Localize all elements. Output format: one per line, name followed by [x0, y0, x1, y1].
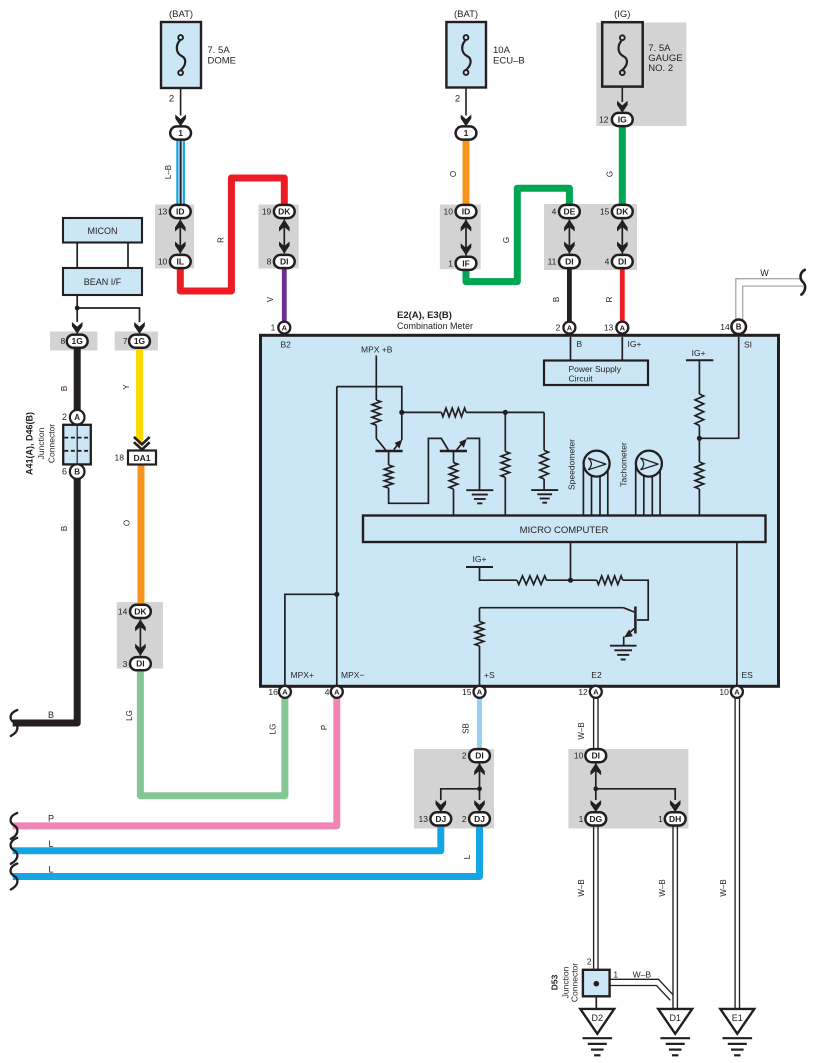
svg-text:DOME: DOME	[208, 56, 237, 67]
wire MPX top link	[337, 387, 402, 413]
svg-text:A: A	[282, 688, 288, 697]
svg-text:B: B	[60, 526, 69, 531]
svg-text:1: 1	[178, 128, 183, 138]
pin 13 DJ	[419, 812, 452, 825]
svg-text:18: 18	[115, 453, 125, 463]
svg-text:D1: D1	[669, 1013, 681, 1023]
splice 1 (ECU-B)	[456, 126, 477, 139]
svg-text:Combination Meter: Combination Meter	[397, 321, 473, 331]
svg-text:3: 3	[123, 659, 128, 669]
svg-text:W–B: W–B	[633, 969, 652, 979]
svg-text:B: B	[552, 297, 561, 302]
svg-text:ECU–B: ECU–B	[493, 56, 525, 67]
wire D53 to D2	[595, 996, 597, 1009]
svg-text:B: B	[74, 467, 80, 476]
svg-text:(IG): (IG)	[614, 9, 630, 20]
ground D1	[658, 1009, 692, 1055]
svg-text:(BAT): (BAT)	[169, 9, 193, 20]
svg-text:DI: DI	[136, 659, 145, 669]
svg-text:+S: +S	[484, 670, 495, 680]
wire O (splice to ID)	[449, 140, 466, 206]
svg-text:D53: D53	[550, 974, 560, 990]
svg-text:12: 12	[578, 687, 588, 697]
ground G1	[466, 490, 493, 503]
transistor Q3	[480, 607, 636, 646]
svg-text:Circuit: Circuit	[569, 374, 594, 384]
svg-text:A: A	[567, 323, 573, 332]
svg-text:B: B	[577, 339, 583, 349]
svg-text:10A: 10A	[493, 45, 511, 56]
svg-text:DJ: DJ	[474, 814, 485, 824]
svg-text:V: V	[266, 296, 275, 302]
svg-text:IG+: IG+	[628, 339, 642, 349]
meter pin 1 A (B2)	[271, 322, 291, 334]
meter pin 16 A (MPX+)	[268, 686, 290, 698]
svg-text:L: L	[48, 865, 53, 875]
connector ID/IF block	[440, 205, 481, 270]
IG+ branch right	[686, 348, 713, 516]
svg-text:DI: DI	[592, 751, 601, 761]
svg-text:10: 10	[158, 257, 168, 267]
svg-text:Junction: Junction	[36, 427, 46, 459]
wire MPX- vertical	[336, 387, 338, 686]
tachometer legs	[636, 461, 660, 516]
svg-text:G: G	[605, 171, 614, 177]
svg-text:MPX−: MPX−	[341, 670, 364, 680]
pin 1 DH	[658, 812, 686, 825]
svg-text:A: A	[734, 688, 740, 697]
resistor R11 (+S)	[475, 608, 484, 686]
svg-text:A: A	[620, 323, 626, 332]
svg-text:DI: DI	[475, 751, 484, 761]
svg-text:1: 1	[464, 128, 469, 138]
combination meter E2(A),E3(B) box	[261, 310, 779, 686]
svg-text:11: 11	[548, 257, 557, 267]
svg-text:7: 7	[123, 336, 128, 346]
node IG+ lower	[466, 554, 517, 580]
resistor R10 horizontal	[597, 576, 623, 585]
pin 15 DK	[600, 205, 633, 218]
wire B (1G to junction A)	[60, 348, 77, 411]
wire G (IG to DK)	[605, 126, 622, 206]
wire W-B (ES to E1)	[719, 698, 740, 1009]
svg-text:1G: 1G	[72, 336, 84, 346]
svg-text:SI: SI	[744, 340, 752, 350]
speedometer dial	[567, 439, 610, 490]
wire-break P	[11, 813, 18, 839]
connector DI/DJ block	[414, 749, 494, 829]
svg-text:Connector: Connector	[570, 963, 580, 1002]
svg-text:2: 2	[455, 94, 460, 105]
node dot MPX+/-	[334, 592, 339, 597]
wire W-B (E2 to DI)	[577, 698, 598, 750]
pin 7 1G	[123, 335, 150, 348]
pin 2 DI	[462, 749, 490, 762]
pin 4 DE	[552, 205, 580, 218]
pin 10 IL	[158, 255, 191, 268]
svg-text:4: 4	[552, 207, 557, 217]
svg-text:DH: DH	[669, 814, 681, 824]
wire V (DI to meter B2)	[266, 267, 284, 322]
svg-text:ID: ID	[176, 207, 185, 217]
node dot MPX junction	[399, 410, 404, 415]
connector DK/DI block (left)	[259, 205, 299, 269]
meter pin 12 A (E2)	[578, 686, 601, 698]
svg-text:2: 2	[169, 94, 174, 105]
svg-text:1G: 1G	[134, 336, 146, 346]
svg-text:DK: DK	[278, 207, 291, 217]
svg-text:E2(A), E3(B): E2(A), E3(B)	[397, 310, 452, 321]
svg-text:A: A	[74, 413, 80, 422]
wire top horizontal	[402, 411, 544, 413]
svg-text:13: 13	[419, 814, 429, 824]
svg-text:DA1: DA1	[133, 453, 150, 463]
svg-text:8: 8	[60, 336, 65, 346]
wire R (IL to DK)	[180, 178, 284, 291]
pin 1 IF	[448, 257, 476, 270]
svg-text:IF: IF	[462, 258, 470, 268]
svg-text:A41(A), D46(B): A41(A), D46(B)	[25, 412, 35, 475]
power supply circuit box	[544, 361, 648, 386]
junction pin 6 B	[62, 464, 85, 479]
svg-text:DE: DE	[563, 207, 575, 217]
fuse ECU-B pin 2 lead	[455, 88, 471, 127]
wire P (meter MPX- to left)	[13, 698, 337, 826]
resistor R4 horizontal	[441, 408, 466, 417]
wire L (13 DJ to left)	[13, 825, 441, 851]
resistor R1	[372, 400, 381, 425]
node MPX+ label	[291, 670, 314, 680]
svg-text:E2: E2	[591, 670, 602, 680]
wire SB (+S to DI)	[461, 698, 479, 750]
arrow DK-DI 2	[617, 220, 628, 254]
svg-text:Tachometer: Tachometer	[619, 442, 629, 487]
svg-text:MPX+: MPX+	[291, 670, 314, 680]
connector DE-DI / DK-DI block	[544, 204, 637, 270]
pin 13 ID	[158, 205, 191, 218]
svg-text:15: 15	[462, 687, 472, 697]
arrow DK-DI	[279, 220, 290, 254]
svg-text:MPX +B: MPX +B	[361, 345, 393, 355]
svg-text:DK: DK	[616, 207, 629, 217]
arrow ID-IL	[175, 220, 186, 254]
fuse 7.5A GAUGE NO.2	[596, 9, 686, 126]
meter pin 10 A (ES)	[719, 686, 742, 698]
pin 4 DI 2	[605, 255, 633, 268]
svg-text:W–B: W–B	[658, 879, 667, 896]
junction connector D53	[550, 956, 619, 1002]
arrow double-chevron DA1	[134, 437, 150, 450]
connector DI/DG/DH block	[568, 749, 688, 829]
svg-text:1: 1	[271, 323, 276, 333]
svg-text:L–B: L–B	[164, 165, 173, 179]
svg-text:14: 14	[720, 322, 730, 332]
splice 1 (DOME)	[170, 126, 191, 139]
resistor R2 + Q1 emitter path	[384, 438, 448, 503]
svg-text:4: 4	[325, 687, 330, 697]
wire-break L2	[11, 864, 18, 890]
svg-text:R: R	[216, 237, 225, 243]
resistor R5	[501, 412, 510, 515]
BEAN I/F box	[63, 268, 142, 295]
pin 8 1G	[60, 335, 87, 348]
svg-text:IG: IG	[618, 115, 627, 125]
wire W (from right)	[736, 268, 803, 322]
svg-text:W: W	[760, 268, 769, 278]
connector 1G gray pads	[50, 332, 158, 351]
svg-text:A: A	[282, 323, 288, 332]
meter pin 13 A (IG+)	[604, 322, 628, 334]
pin 10 ID	[444, 205, 477, 218]
svg-text:W–B: W–B	[719, 879, 728, 896]
svg-text:2: 2	[587, 956, 592, 966]
svg-text:IG+: IG+	[473, 554, 487, 564]
fuse 7.5A DOME	[161, 9, 236, 88]
svg-text:P: P	[320, 725, 329, 730]
junction connector A41/D46 box	[63, 425, 91, 465]
arrow DE-DI	[564, 220, 575, 254]
svg-text:NO. 2: NO. 2	[648, 63, 673, 74]
connector ID/IL block	[155, 205, 194, 269]
svg-text:W–B: W–B	[577, 879, 586, 896]
wire-break W	[801, 270, 806, 295]
resistor R9 horizontal	[517, 576, 547, 585]
wire-break B	[11, 710, 18, 736]
svg-text:D2: D2	[592, 1013, 604, 1023]
pin 1 DG	[579, 812, 607, 825]
svg-text:DK: DK	[134, 606, 147, 616]
svg-text:2: 2	[556, 323, 561, 333]
svg-text:10: 10	[719, 687, 729, 697]
svg-text:MICON: MICON	[88, 226, 118, 236]
svg-text:O: O	[123, 520, 132, 526]
svg-text:E1: E1	[732, 1013, 743, 1023]
svg-text:8: 8	[267, 257, 272, 267]
svg-text:19: 19	[262, 207, 272, 217]
svg-text:13: 13	[158, 207, 168, 217]
wire R10 to Q3 collector	[623, 580, 649, 620]
svg-text:DJ: DJ	[435, 814, 446, 824]
svg-text:14: 14	[118, 606, 128, 616]
svg-text:G: G	[502, 237, 511, 243]
wire W-B (D53 to D1 line)	[610, 969, 673, 1000]
node B line	[571, 337, 583, 361]
svg-text:IG+: IG+	[692, 348, 706, 358]
svg-text:1: 1	[613, 970, 618, 980]
svg-text:1: 1	[448, 258, 453, 268]
svg-text:R: R	[605, 296, 614, 302]
micro computer box	[363, 516, 766, 543]
wire R (DI to meter IG+)	[605, 267, 623, 322]
svg-text:A: A	[477, 688, 483, 697]
svg-text:IL: IL	[177, 257, 185, 267]
svg-text:13: 13	[604, 323, 614, 333]
wire L (2 DJ to left)	[13, 825, 480, 877]
svg-text:B: B	[736, 323, 742, 332]
wire O (DA1 to DK)	[123, 465, 142, 605]
svg-text:15: 15	[600, 207, 610, 217]
wire B (DI to meter B)	[552, 267, 570, 322]
svg-text:LG: LG	[125, 710, 134, 721]
wire L-B (DOME to ID)	[164, 140, 184, 206]
meter pin 15 A (+S)	[462, 686, 485, 698]
node E2 label	[591, 670, 602, 680]
connector DK/DI block (low left)	[117, 602, 163, 669]
node dot SI/IG+	[697, 436, 702, 441]
wire W-B (DH to D1)	[658, 825, 678, 1009]
pin 19 DK	[262, 205, 295, 218]
pin 8 DI	[267, 255, 295, 268]
node +S label	[484, 670, 495, 680]
node MPX +B	[361, 345, 393, 401]
pin 12 IG	[599, 113, 633, 126]
wire BEAN to 1G pins	[72, 295, 145, 334]
pin 3 DI	[123, 657, 151, 670]
ground E1	[720, 1009, 754, 1055]
node MPX- label	[341, 670, 364, 680]
MICON-BEAN links	[77, 243, 128, 269]
svg-text:B: B	[60, 386, 69, 391]
transistor Q1	[375, 412, 402, 451]
transistor Q2	[440, 438, 480, 489]
wire Y (1G to DA1)	[122, 348, 143, 447]
svg-text:2: 2	[462, 751, 467, 761]
svg-text:LG: LG	[268, 724, 277, 735]
svg-text:12: 12	[599, 115, 609, 125]
node SI line	[701, 337, 752, 438]
svg-text:1: 1	[658, 814, 663, 824]
svg-text:W–B: W–B	[577, 722, 586, 739]
svg-text:BEAN I/F: BEAN I/F	[84, 277, 122, 287]
arrow DK-DI low	[135, 619, 146, 655]
svg-text:Connector: Connector	[47, 424, 57, 463]
svg-text:A: A	[593, 688, 599, 697]
svg-text:7. 5A: 7. 5A	[208, 45, 231, 56]
ground G2	[531, 490, 558, 503]
svg-text:Speedometer: Speedometer	[567, 439, 577, 490]
MICON box	[63, 218, 142, 243]
svg-text:2: 2	[462, 814, 467, 824]
wire W-B (DG to D53)	[577, 825, 598, 969]
arrow DI to DG/DH	[591, 762, 681, 812]
svg-text:DI: DI	[565, 257, 574, 267]
svg-text:O: O	[449, 171, 458, 177]
node ES line	[737, 542, 753, 686]
wire MPX+ vertical	[285, 594, 337, 686]
ground D2	[580, 1009, 614, 1055]
svg-text:10: 10	[574, 751, 584, 761]
pin 11 DI	[548, 255, 580, 268]
connector 18 DA1	[115, 451, 156, 465]
speedometer legs	[583, 461, 607, 516]
fuse DOME pin 2 lead	[169, 88, 186, 127]
svg-text:ID: ID	[462, 207, 471, 217]
svg-text:6: 6	[62, 467, 67, 477]
resistor R8	[695, 462, 704, 489]
arrow ID-IF	[461, 220, 472, 256]
svg-text:B: B	[48, 710, 54, 720]
svg-text:Power Supply: Power Supply	[569, 364, 622, 374]
svg-text:Y: Y	[122, 384, 131, 390]
resistor R3 under Q2	[449, 452, 458, 516]
wire G (IF to DE)	[466, 188, 569, 281]
svg-text:B2: B2	[281, 340, 292, 350]
svg-text:P: P	[48, 814, 54, 824]
svg-text:2: 2	[62, 412, 67, 422]
svg-text:L: L	[48, 839, 53, 849]
svg-text:SB: SB	[461, 723, 470, 734]
svg-text:MICRO COMPUTER: MICRO COMPUTER	[520, 525, 609, 536]
svg-text:ES: ES	[742, 670, 754, 680]
fuse 10A ECU-B	[446, 9, 524, 88]
meter pin 4 A (MPX-)	[325, 686, 343, 698]
pin 2 DJ	[462, 812, 490, 825]
pin 14 DK	[118, 605, 151, 618]
node IG+ line	[622, 337, 641, 361]
pin 10 DI	[574, 749, 606, 762]
junction connector labels	[25, 412, 57, 475]
wire dot to R10	[571, 579, 597, 581]
wire LG (DI to meter MPX+)	[125, 669, 285, 796]
resistor R7	[695, 394, 704, 426]
meter pin 14 B (SI)	[720, 320, 746, 335]
fuse IG lead	[617, 87, 628, 113]
wire to dot	[547, 542, 571, 580]
node dot E-branch	[568, 578, 573, 583]
svg-text:1: 1	[579, 814, 584, 824]
svg-text:DG: DG	[589, 814, 602, 824]
svg-text:DI: DI	[280, 257, 289, 267]
wire-break L1	[11, 838, 18, 864]
svg-text:16: 16	[268, 687, 278, 697]
meter pin 2 A (B)	[556, 322, 576, 334]
svg-text:DI: DI	[618, 257, 627, 267]
wire B (junction to left)	[13, 478, 78, 723]
tachometer dial	[619, 442, 662, 487]
svg-text:L: L	[463, 854, 472, 859]
arrow DI to DJ pair	[436, 762, 485, 812]
resistor R6 to ground	[540, 412, 549, 490]
ground G3	[610, 646, 637, 660]
svg-text:10: 10	[444, 207, 454, 217]
node dot R5	[503, 410, 508, 415]
svg-text:(BAT): (BAT)	[454, 9, 478, 20]
svg-text:A: A	[334, 688, 340, 697]
junction pin 2 A	[62, 410, 85, 425]
svg-text:4: 4	[605, 257, 610, 267]
